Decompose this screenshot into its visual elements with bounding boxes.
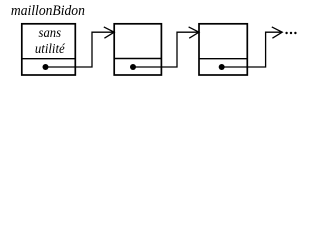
arrowhead into node 2	[104, 27, 114, 38]
svg-text:sans: sans	[39, 26, 62, 41]
arrowhead continuation	[272, 27, 282, 38]
node 1 pointer dot	[43, 64, 49, 70]
svg-text:utilité: utilité	[35, 42, 66, 57]
node 3 divider	[199, 58, 247, 60]
node 3 box	[199, 24, 247, 75]
svg-text:maillonBidon: maillonBidon	[11, 3, 85, 19]
node 2 box	[114, 24, 161, 75]
wire node3 to continuation	[222, 32, 282, 67]
node 1 box	[22, 24, 76, 75]
node 2 divider	[114, 58, 161, 60]
ellipsis continuation dots	[285, 32, 296, 34]
node 2 pointer dot	[130, 64, 136, 70]
wire node1 to node2	[46, 32, 114, 67]
node 3 pointer dot	[219, 64, 225, 70]
node 1 divider	[22, 58, 76, 60]
arrowhead into node 3	[189, 27, 199, 38]
wire node2 to node3	[133, 32, 198, 67]
